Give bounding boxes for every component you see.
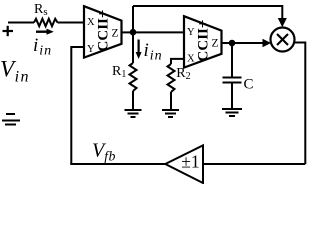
wire C to ground: [231, 83, 233, 110]
wire R2 to ground: [170, 92, 172, 110]
svg-text:Z: Z: [212, 37, 219, 49]
wire input from source to Rs: [8, 22, 34, 24]
wire Z of U2 to node B: [222, 42, 233, 44]
svg-text:Y: Y: [187, 27, 195, 38]
capacitor C: [223, 78, 242, 83]
wire Z of U1 to node A: [122, 31, 134, 33]
resistor Rs: [34, 19, 58, 26]
wire node B down to C: [231, 43, 233, 77]
ground (R2): [162, 110, 179, 117]
ground (C): [222, 109, 242, 116]
plus terminal label: [3, 26, 14, 36]
arrow into multiplier left: [263, 39, 272, 48]
current arrow i_in (through R1): [136, 40, 142, 60]
wire node A up to top rail: [132, 6, 134, 32]
svg-text:CCII+: CCII+: [196, 20, 212, 62]
svg-text:Z: Z: [112, 27, 119, 39]
wire node B to multiplier left input: [232, 42, 266, 44]
svg-text:X: X: [187, 54, 195, 65]
op-amp U2 CCII+ (current conveyor 2): [184, 16, 222, 67]
node B (junction dot): [229, 40, 236, 47]
current arrow i_in (input): [36, 29, 54, 35]
svg-text:C: C: [244, 77, 254, 93]
wire node A down to R1: [132, 32, 134, 63]
wire bottom rail to buffer input: [203, 163, 305, 165]
wire X of U2 to R2: [171, 59, 184, 64]
wire R1 to ground: [132, 91, 134, 110]
wire multiplier output to right rail: [294, 43, 305, 165]
buffer A1 (+/-1 amplifier): [165, 145, 203, 183]
multiplier M1: [271, 28, 295, 52]
wire Rs to X of U1: [58, 22, 85, 24]
ground (source): [2, 114, 20, 125]
resistor R2: [168, 64, 175, 92]
node A (junction dot): [130, 29, 137, 36]
op-amp U1 CCII+ (current conveyor 1): [84, 6, 122, 57]
ground (R1): [125, 110, 142, 117]
resistor R1: [130, 63, 137, 91]
wire node A to Y of U2: [133, 31, 184, 33]
arrow into multiplier top: [278, 18, 287, 27]
wire Y of U1 to feedback riser: [71, 47, 84, 164]
svg-text:X: X: [87, 17, 95, 28]
svg-text:±1: ±1: [181, 152, 199, 172]
svg-text:CCII+: CCII+: [96, 10, 112, 52]
wire top rail to multiplier: [133, 6, 282, 20]
wire buffer output to feedback riser: [70, 163, 165, 165]
svg-text:Y: Y: [87, 44, 95, 55]
